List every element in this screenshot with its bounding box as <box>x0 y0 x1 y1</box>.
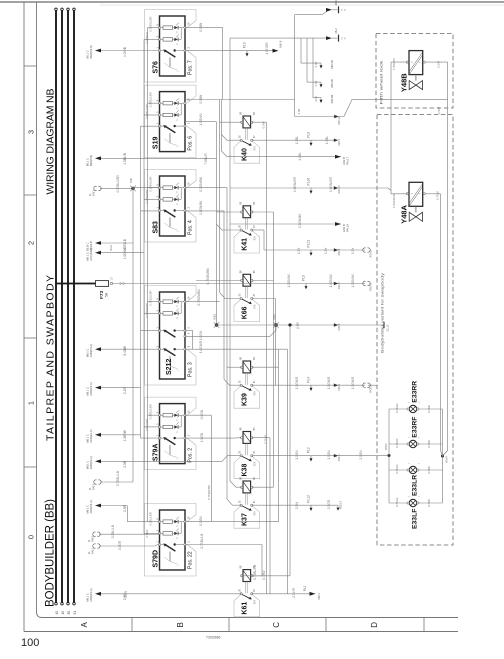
svg-text:K37: K37 <box>242 513 249 526</box>
svg-text:0.75BL/LB: 0.75BL/LB <box>200 534 204 549</box>
svg-text:K38: K38 <box>242 464 249 477</box>
svg-text:PL4: PL4 <box>307 377 311 383</box>
wire to K40 contact 30 <box>222 135 242 141</box>
left connection arrow to S79D pin 9 <box>95 504 101 508</box>
svg-text:X60.8: X60.8 <box>337 248 341 255</box>
svg-text:PL9: PL9 <box>243 42 247 48</box>
svg-text:X68.1: X68.1 <box>317 592 321 599</box>
svg-text:0.75GN/BN: 0.75GN/BN <box>145 303 149 317</box>
svg-text:0.75GN: 0.75GN <box>395 439 399 448</box>
svg-text:X30.4: X30.4 <box>337 138 341 145</box>
svg-text:2.5R: 2.5R <box>123 460 127 468</box>
svg-text:RED(5.B): RED(5.B) <box>89 155 93 167</box>
bus end terminals and labels <box>55 8 58 11</box>
left daisy wire pins 1 column <box>140 126 142 438</box>
svg-text:1.5GN/R: 1.5GN/R <box>327 376 331 389</box>
svg-text:X60.2B: X60.2B <box>330 60 334 69</box>
svg-text:0.5R/LBR: 0.5R/LBR <box>145 419 149 431</box>
wire K41 contact out <box>252 229 264 231</box>
svg-text:X6.1: X6.1 <box>334 0 338 6</box>
svg-text:0.75GN: 0.75GN <box>395 498 399 507</box>
svg-text:PL5: PL5 <box>302 275 306 281</box>
svg-text:FA10: FA10 <box>91 535 95 542</box>
wire S83 pin 2 down to K39 <box>185 210 224 212</box>
wire S76 pin 2 to X60.9 <box>185 50 275 52</box>
svg-text:B5.B C: B5.B C <box>86 242 90 251</box>
relay K39 <box>234 386 260 409</box>
svg-text:D: D <box>370 622 379 628</box>
svg-text:G52 B: G52 B <box>342 224 346 232</box>
lamp E33LF <box>409 499 416 506</box>
wire trunk to K37 coil <box>230 481 242 487</box>
svg-text:0.35BL/LBR: 0.35BL/LBR <box>149 291 153 306</box>
left daisy wire ACC column <box>132 188 134 482</box>
svg-text:1.5GN/R: 1.5GN/R <box>392 57 396 70</box>
svg-text:S79A: S79A <box>153 444 160 462</box>
switch pin stub wires <box>148 27 160 29</box>
relay K37 coil out <box>252 486 274 488</box>
svg-text:0.75GN: 0.75GN <box>395 465 399 474</box>
left connector G to S79D pin 3 <box>93 532 96 536</box>
relay K61 <box>234 594 260 617</box>
lamp E33LR <box>409 466 416 473</box>
nest branch X60.2B upper <box>300 38 302 63</box>
svg-text:Y48A: Y48A <box>400 204 409 223</box>
nest branch X60.4B <box>312 38 314 98</box>
svg-text:1.0GN/G: 1.0GN/G <box>123 246 127 259</box>
left connection arrow to S76 pin 1 <box>95 49 101 53</box>
svg-text:WIRING DIAGRAM NB: WIRING DIAGRAM NB <box>45 89 57 195</box>
svg-text:0.5GN: 0.5GN <box>200 409 204 419</box>
svg-text:M6.1 C: M6.1 C <box>86 252 90 261</box>
svg-text:0.35BL/LBR: 0.35BL/LBR <box>149 92 153 107</box>
switch S19 <box>145 85 197 158</box>
left connector G FA11 <box>94 186 97 190</box>
left connection arrow to S212 pin 1 <box>95 347 101 351</box>
relay K66 contact out to trunk b3 <box>252 298 276 300</box>
svg-text:1.5R/W: 1.5R/W <box>123 429 127 441</box>
relay K40 coil out to trunk b1 <box>252 121 267 123</box>
svg-text:2.5W: 2.5W <box>295 502 299 509</box>
svg-text:S212: S212 <box>166 359 173 375</box>
left daisy wire pins 9 column <box>147 28 149 522</box>
svg-text:1.5GN/W: 1.5GN/W <box>351 274 355 287</box>
svg-text:0.5BL/LBR: 0.5BL/LBR <box>149 512 153 526</box>
svg-text:C: C <box>272 622 281 628</box>
sheet frame left borders <box>23 2 25 632</box>
wire S212 pin 6 to vertical <box>193 348 288 350</box>
svg-text:4.0R: 4.0R <box>314 81 318 87</box>
svg-text:4.0R: 4.0R <box>314 96 318 102</box>
relay K39 coil feed <box>227 366 242 368</box>
svg-text:2.5Y/R: 2.5Y/R <box>292 587 296 597</box>
svg-text:RED(K4.8): RED(K4.8) <box>89 45 93 58</box>
relay K41 coil feed <box>217 211 242 213</box>
svg-text:M6.1 C: M6.1 C <box>86 505 90 514</box>
power bus line 30 <box>67 11 69 603</box>
ground symbol 31_E <box>383 322 385 328</box>
svg-text:0.75BL/LB: 0.75BL/LB <box>116 471 120 486</box>
svg-text:TAILPREP AND SWAPBODY: TAILPREP AND SWAPBODY <box>45 275 57 441</box>
svg-text:1.5BL: 1.5BL <box>295 136 299 145</box>
svg-text:ADD(K4.A): ADD(K4.A) <box>89 344 93 357</box>
svg-text:0.75GN: 0.75GN <box>395 404 399 413</box>
svg-text:G52 B: G52 B <box>342 157 346 165</box>
power bus line 15 <box>61 11 63 603</box>
left connection arrow 2.1R <box>95 386 101 390</box>
sheet frame top border <box>0 1 504 3</box>
svg-text:1.5GN/W: 1.5GN/W <box>287 274 291 287</box>
svg-text:2.5R: 2.5R <box>296 322 300 329</box>
svg-text:X68.12: X68.12 <box>339 500 343 509</box>
svg-text:1: 1 <box>27 401 36 405</box>
svg-text:S19: S19 <box>153 137 160 150</box>
wire K37 contact out to X68.12 <box>252 504 338 506</box>
svg-text:Bodybuilder variant for swapbo: Bodybuilder variant for swapbody <box>380 273 385 353</box>
svg-text:1.5GN/GR: 1.5GN/GR <box>392 193 396 208</box>
svg-text:4.0R: 4.0R <box>314 62 318 68</box>
solenoid valve Y48A <box>409 182 423 206</box>
svg-text:1.5Y: 1.5Y <box>351 247 355 254</box>
junction dots on ground wire <box>215 323 218 326</box>
svg-text:ADD(K4.A): ADD(K4.A) <box>89 456 93 469</box>
nest wire to X6.1 <box>295 10 329 15</box>
svg-text:2.5R: 2.5R <box>123 504 127 512</box>
svg-text:Fifth wheel lock: Fifth wheel lock <box>379 61 384 105</box>
wire S212 pin 4 to junction dot <box>185 335 270 337</box>
svg-text:2.5R: 2.5R <box>124 590 128 597</box>
svg-text:2.5W: 2.5W <box>437 107 441 114</box>
svg-text:ADD(K4.A): ADD(K4.A) <box>89 500 93 513</box>
svg-text:31: 31 <box>73 611 77 615</box>
svg-text:0.5GN: 0.5GN <box>199 516 203 526</box>
fuse F73 with feed from bus 40 <box>55 283 95 285</box>
left connection arrow 2.5R to relay K38 <box>95 459 101 463</box>
svg-text:0.75W: 0.75W <box>262 571 266 580</box>
left connection arrow ACC upper <box>95 241 101 245</box>
svg-text:ACD(E1.A): ACD(E1.A) <box>89 429 93 442</box>
svg-text:30: 30 <box>67 611 71 615</box>
svg-text:RG4: RG4 <box>109 245 113 251</box>
wire PL16 to valves <box>230 187 388 189</box>
svg-text:RG0.5: RG0.5 <box>369 282 373 291</box>
svg-text:1.5GN/BK: 1.5GN/BK <box>199 200 203 215</box>
grid column dividers bottom band <box>131 618 133 632</box>
svg-text:1.5GN/R: 1.5GN/R <box>351 376 355 389</box>
svg-text:0.5BL/LB: 0.5BL/LB <box>111 525 115 538</box>
svg-text:1.5GN: 1.5GN <box>327 450 331 460</box>
lamp E33RR <box>409 405 416 412</box>
wire S79A pin 2 to K38 coil <box>185 437 235 439</box>
svg-text:FA13: FA13 <box>92 483 96 490</box>
svg-text:M6.1 C: M6.1 C <box>86 348 90 357</box>
svg-text:0.35BL/V: 0.35BL/V <box>145 32 149 44</box>
svg-text:7.5BL/R: 7.5BL/R <box>204 153 208 165</box>
wire fuse output to connector RG0.5 <box>113 283 365 285</box>
svg-text:PL12: PL12 <box>307 495 311 503</box>
svg-text:2: 2 <box>27 241 36 245</box>
svg-text:5A: 5A <box>105 292 109 297</box>
left connector G FA13 <box>94 480 97 484</box>
svg-text:0.75W: 0.75W <box>264 435 268 444</box>
nest wire to X6.2 <box>230 37 326 39</box>
svg-text:1.5Y: 1.5Y <box>324 247 328 254</box>
svg-text:A: A <box>80 621 89 627</box>
left connection arrow B6.1 <box>95 156 101 160</box>
svg-text:0.35BL/LBR: 0.35BL/LBR <box>116 175 120 193</box>
svg-text:ACC(K4.4): ACC(K4.4) <box>89 248 93 261</box>
svg-text:31_E: 31_E <box>386 324 390 331</box>
svg-text:0.5GR: 0.5GR <box>118 540 122 550</box>
svg-text:PAL19: PAL19 <box>346 224 350 232</box>
svg-text:0.35GN/BK: 0.35GN/BK <box>145 189 149 203</box>
wire lamp feed through X60.10 <box>295 116 344 118</box>
relay K61 coil out <box>252 575 290 577</box>
grid row ticks left band <box>24 65 37 67</box>
wire K40 contact out to X30.4 <box>252 139 336 141</box>
svg-text:B: B <box>176 622 185 627</box>
relay K40 <box>234 141 260 164</box>
svg-text:M6.1 C: M6.1 C <box>86 387 90 396</box>
wire K61 contact out PL1 <box>252 593 310 595</box>
svg-text:87A: 87A <box>254 304 257 309</box>
svg-text:ADD(K4.A): ADD(K4.A) <box>89 382 93 395</box>
lamp bus left <box>388 454 391 457</box>
wire Y48A feed <box>391 191 408 194</box>
svg-text:1.0GN: 1.0GN <box>199 330 203 340</box>
svg-text:FA11: FA11 <box>92 190 96 196</box>
svg-text:0.5BN: 0.5BN <box>199 94 203 104</box>
svg-text:B6.1 C: B6.1 C <box>86 158 90 166</box>
svg-text:E33RF: E33RF <box>411 417 418 438</box>
relay K39 coil out to trunk b4 <box>252 366 279 368</box>
relay K41 <box>234 230 260 253</box>
svg-text:2.1R: 2.1R <box>123 387 127 395</box>
switch S83 <box>145 170 197 243</box>
wire S79D pin 10 down from trunk b4 <box>185 521 279 523</box>
switch S79A <box>145 397 197 470</box>
svg-text:X30.4: X30.4 <box>337 383 341 390</box>
nest vertical down to lamp feed <box>294 15 296 117</box>
wire from dot down to K61 coil <box>289 325 291 576</box>
solenoid valve Y48B <box>409 51 423 75</box>
wire S79D pin 2 to K61 coil <box>185 544 262 546</box>
svg-text:0: 0 <box>27 535 36 539</box>
svg-text:1.5Y: 1.5Y <box>297 247 301 254</box>
svg-text:2.5W: 2.5W <box>437 61 441 68</box>
svg-text:87A: 87A <box>254 391 257 396</box>
svg-text:0.75W: 0.75W <box>427 440 431 448</box>
svg-text:PL9: PL9 <box>307 132 311 138</box>
relay K37 <box>234 506 260 529</box>
dashed box Fifth wheel lock <box>376 34 453 109</box>
svg-text:0.45W: 0.45W <box>123 345 127 355</box>
relay K41 coil out to trunk b2 <box>252 211 274 213</box>
svg-text:Pos. 22: Pos. 22 <box>188 551 194 569</box>
svg-text:X60.10: X60.10 <box>337 116 341 125</box>
relay K66 <box>234 299 260 322</box>
lamp row wires <box>389 408 407 410</box>
svg-text:0.5GN/BN: 0.5GN/BN <box>199 176 203 191</box>
wire S83 pin 10 down to K37 <box>185 187 227 189</box>
svg-text:X60.2B: X60.2B <box>330 79 334 88</box>
svg-text:0.75W: 0.75W <box>427 405 431 413</box>
svg-text:S83: S83 <box>153 221 160 234</box>
svg-text:Pos. 2: Pos. 2 <box>188 448 194 463</box>
svg-text:BODYBUILDER (BB): BODYBUILDER (BB) <box>45 499 57 607</box>
svg-text:Pos. 3: Pos. 3 <box>188 362 194 377</box>
svg-text:2.5GN: 2.5GN <box>359 450 363 460</box>
svg-text:X60.9: X60.9 <box>279 40 283 48</box>
wire S212 pin 10 to trunk <box>185 301 220 303</box>
svg-text:X60.4B: X60.4B <box>330 94 334 103</box>
svg-text:PL13: PL13 <box>307 240 311 248</box>
wire to K41 contact 30 <box>217 224 242 230</box>
svg-text:Pos. 6: Pos. 6 <box>188 136 194 151</box>
trunk wire a3 S76.2 branch <box>221 100 223 152</box>
wire to G52 B PAL19 <box>230 223 341 225</box>
svg-text:E33RR: E33RR <box>411 381 418 403</box>
svg-text:X50.8: X50.8 <box>369 250 373 258</box>
svg-text:1.5GN/V: 1.5GN/V <box>199 113 203 126</box>
svg-text:0.35BL/LBP: 0.35BL/LBP <box>145 104 149 119</box>
svg-text:1.5BL: 1.5BL <box>325 136 329 145</box>
trunk wire a2 to K66 <box>219 100 221 293</box>
svg-text:1.5GN/W: 1.5GN/W <box>329 274 333 287</box>
svg-text:K39: K39 <box>242 393 249 406</box>
svg-text:87A: 87A <box>254 236 257 241</box>
svg-text:Pos. 4: Pos. 4 <box>188 220 194 235</box>
svg-text:0.35BL/LBR: 0.35BL/LBR <box>149 177 153 192</box>
power bus line 31 <box>73 11 75 603</box>
svg-text:X881: X881 <box>130 177 133 183</box>
svg-text:0.75W: 0.75W <box>427 466 431 474</box>
svg-text:0.75W: 0.75W <box>427 499 431 507</box>
svg-text:1.0GN/R: 1.0GN/R <box>199 340 203 353</box>
svg-text:K40: K40 <box>242 148 249 161</box>
svg-text:1.5GN/GR: 1.5GN/GR <box>293 176 297 192</box>
wire Y48B feed <box>391 61 408 63</box>
svg-text:1.5GN/R: 1.5GN/R <box>295 376 299 389</box>
svg-text:3: 3 <box>27 130 36 134</box>
lamp bus right <box>441 455 444 458</box>
power bus line 40 <box>55 11 57 603</box>
svg-text:M6.1 C: M6.1 C <box>86 434 90 443</box>
svg-text:PAL17: PAL17 <box>346 156 350 164</box>
svg-text:15: 15 <box>61 611 65 615</box>
switch S212 <box>145 286 197 386</box>
svg-text:X88G: X88G <box>273 314 276 320</box>
relay K38 <box>234 456 260 479</box>
svg-text:X30.3: X30.3 <box>337 454 341 461</box>
svg-text:Y48B: Y48B <box>400 73 409 92</box>
left connection arrow ACC lower <box>95 251 101 255</box>
svg-text:M6.1 C: M6.1 C <box>86 461 90 470</box>
svg-text:K41: K41 <box>242 238 249 251</box>
switch S76 <box>145 10 197 83</box>
svg-text:1.5Y/GR: 1.5Y/GR <box>265 42 269 55</box>
svg-text:PL2: PL2 <box>307 447 311 453</box>
svg-text:0.75BL/LB: 0.75BL/LB <box>253 565 257 580</box>
ground wire 31_E <box>217 324 384 326</box>
svg-text:S76: S76 <box>153 61 160 74</box>
trunk wire a1 S19.2 down to ground line <box>216 122 218 325</box>
svg-text:X6.2: X6.2 <box>334 28 338 34</box>
svg-text:0.75GN/BN: 0.75GN/BN <box>206 268 210 285</box>
svg-text:1.0Y/B: 1.0Y/B <box>123 46 127 57</box>
wire S76 pin 10 down to S19 <box>185 28 223 100</box>
svg-text:Pos. 7: Pos. 7 <box>188 60 194 75</box>
connector RG0.5 <box>363 281 366 285</box>
svg-text:4.0R: 4.0R <box>297 109 301 115</box>
svg-text:W5MR: W5MR <box>446 455 449 463</box>
left connection arrow 2.5R to relay K61 <box>95 592 101 596</box>
svg-text:E33LF: E33LF <box>411 509 418 529</box>
sheet frame bottom band <box>37 612 459 618</box>
svg-text:K61: K61 <box>242 602 249 615</box>
svg-text:X30.13: X30.13 <box>337 185 341 194</box>
lamp E33RF <box>409 440 416 447</box>
svg-text:PL16: PL16 <box>307 178 311 186</box>
relay K66 coil feed <box>196 280 242 282</box>
svg-text:2.5GR: 2.5GR <box>327 499 331 509</box>
svg-text:B6.1 C: B6.1 C <box>86 50 90 58</box>
wire K38 contact out to lamps <box>252 455 389 457</box>
svg-text:100: 100 <box>21 637 39 649</box>
svg-text:0.75GN/BN: 0.75GN/BN <box>197 289 201 306</box>
svg-text:M6.1 C: M6.1 C <box>86 593 90 602</box>
svg-text:X30.5: X30.5 <box>337 282 341 289</box>
svg-text:FA1J: FA1J <box>91 547 95 554</box>
relay K40 coil feed <box>220 121 242 123</box>
wire S19 pin 10 across to nest <box>185 99 295 101</box>
svg-text:0.75W: 0.75W <box>436 191 440 200</box>
svg-text:0.75GN/BK: 0.75GN/BK <box>207 485 211 500</box>
relay K66 coil out <box>252 280 274 282</box>
svg-text:40: 40 <box>55 611 59 615</box>
wire PL13 to X50.8 <box>264 249 365 251</box>
svg-text:87A: 87A <box>254 599 257 604</box>
svg-text:87A: 87A <box>254 146 257 151</box>
svg-text:X30.8: X30.8 <box>337 323 341 330</box>
left connector G to S79D pin 1 <box>93 544 96 548</box>
wire S79A pin 10 down to S79D <box>185 414 211 416</box>
svg-text:S79D: S79D <box>153 550 160 568</box>
left connection arrow to S79A <box>95 433 101 437</box>
svg-text:1.5BL: 1.5BL <box>298 152 302 161</box>
svg-text:0.5BN: 0.5BN <box>199 22 203 32</box>
left daisy wire pins 3 column <box>143 39 145 533</box>
svg-text:W5MF: W5MF <box>385 442 388 450</box>
node X881 junction dot <box>131 187 134 190</box>
svg-text:1.5BL/R: 1.5BL/R <box>123 152 127 165</box>
wire S19 pin 2 into trunk <box>185 121 217 123</box>
svg-text:X88Q: X88Q <box>214 314 217 320</box>
svg-text:0.5W: 0.5W <box>262 121 266 128</box>
svg-text:E33LR: E33LR <box>411 475 418 496</box>
svg-text:T3019686: T3019686 <box>206 636 221 640</box>
dashed box Bodybuilder variant for swapbody <box>377 115 453 546</box>
svg-text:87A: 87A <box>254 461 257 466</box>
relay K38 coil out <box>252 437 270 439</box>
svg-text:ADD(K3.A): ADD(K3.A) <box>89 588 93 601</box>
svg-text:87A: 87A <box>254 511 257 516</box>
svg-text:0.35BL/LBR: 0.35BL/LBR <box>149 404 153 419</box>
svg-text:1.5GN: 1.5GN <box>295 450 299 460</box>
svg-text:0.5GR: 0.5GR <box>145 530 149 538</box>
wire K39 contact out to RG0.4 <box>252 384 365 386</box>
svg-text:1.5GN: 1.5GN <box>200 432 204 442</box>
